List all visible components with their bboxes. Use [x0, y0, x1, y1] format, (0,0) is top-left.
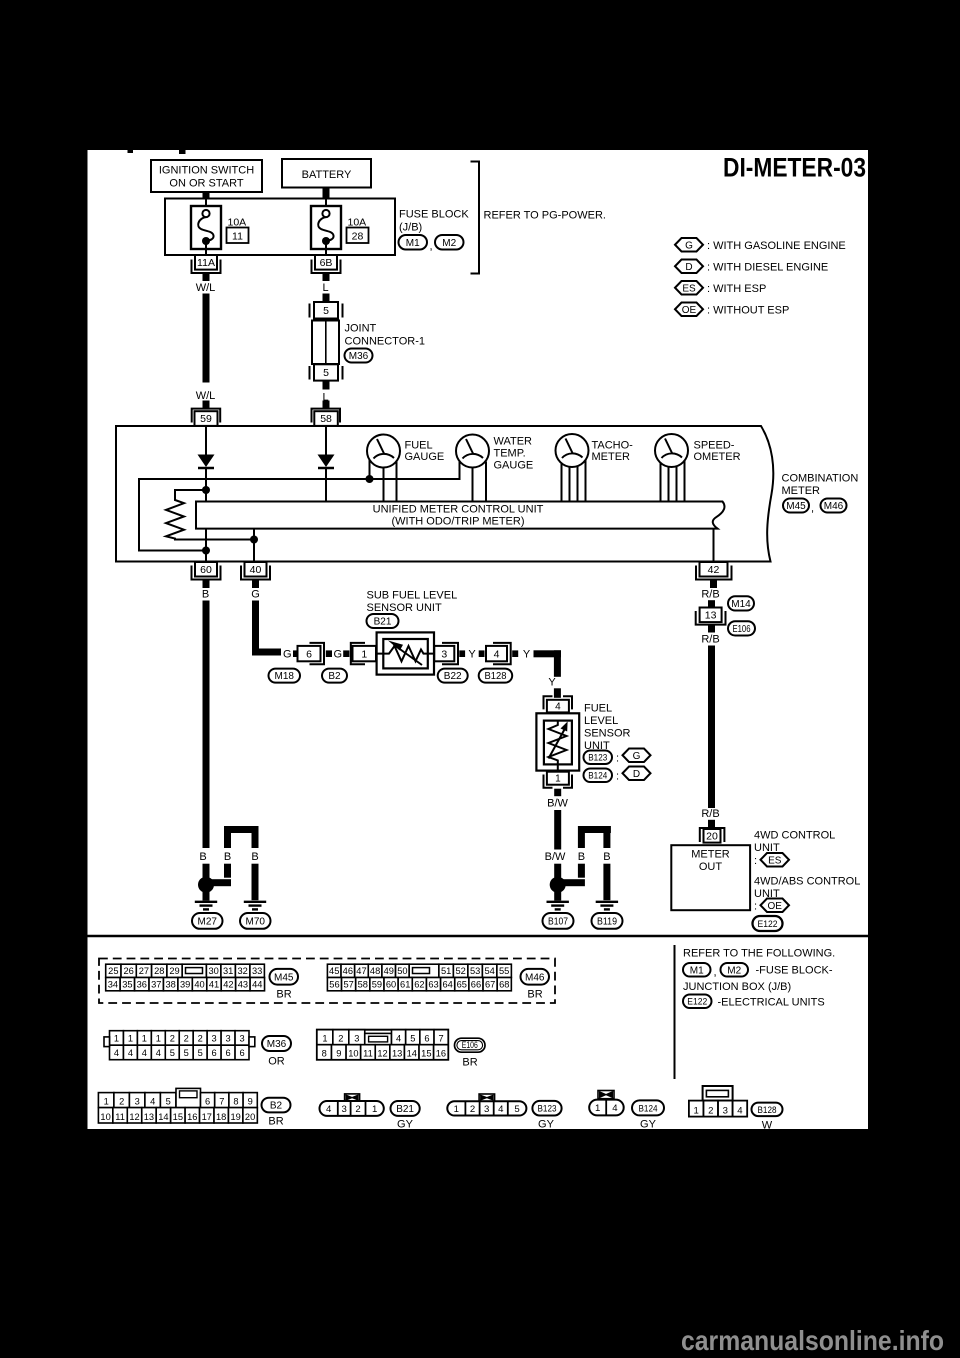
svg-text:57: 57 — [343, 979, 353, 989]
joint connector-1 body — [312, 321, 339, 365]
connector M36 oval — [345, 349, 373, 363]
svg-text:B128: B128 — [758, 1105, 777, 1116]
wire B right leg to M70 — [252, 833, 259, 848]
svg-text:-FUSE BLOCK-: -FUSE BLOCK- — [756, 965, 833, 977]
connector E122 oval — [753, 916, 783, 931]
svg-text:1: 1 — [142, 1033, 147, 1043]
legend OE : WITHOUT ESP — [675, 303, 703, 317]
wire G from pin 40 elbow — [252, 601, 259, 656]
svg-text:4: 4 — [326, 1104, 332, 1115]
svg-text:5: 5 — [184, 1048, 189, 1058]
svg-text:4WD CONTROL: 4WD CONTROL — [754, 829, 835, 841]
legend ES : WITH ESP — [675, 281, 703, 295]
svg-text:7: 7 — [439, 1034, 444, 1044]
svg-text:45: 45 — [329, 966, 339, 976]
connector E106 oval (view) — [455, 1038, 486, 1052]
svg-text:B128: B128 — [484, 671, 506, 682]
connector view M45 key slot — [186, 968, 203, 974]
svg-text:COMBINATION: COMBINATION — [782, 473, 859, 485]
svg-text:OE: OE — [768, 901, 783, 912]
connector view B2 pin grid — [98, 1088, 257, 1123]
diode D2 (from pin 58) — [325, 426, 327, 455]
wire B vertical from pin 60 — [203, 601, 210, 849]
svg-text:4: 4 — [396, 1034, 401, 1044]
connector 58 — [312, 409, 341, 423]
svg-text:TACHO-: TACHO- — [592, 439, 634, 451]
svg-text:12: 12 — [377, 1049, 387, 1059]
svg-text:5: 5 — [166, 1097, 171, 1107]
svg-text:11A: 11A — [197, 257, 215, 269]
wire stub below 13 — [708, 626, 715, 633]
svg-text:: WITHOUT ESP: : WITHOUT ESP — [707, 305, 789, 317]
svg-text:SUB FUEL LEVEL: SUB FUEL LEVEL — [367, 589, 458, 601]
svg-text:B/W: B/W — [545, 851, 566, 863]
svg-text:M1: M1 — [406, 238, 420, 249]
svg-text:1: 1 — [454, 1104, 459, 1115]
dashed group box M45/M46 — [99, 959, 555, 1004]
speedometer meter symbol — [655, 434, 688, 467]
svg-text:11: 11 — [363, 1049, 373, 1059]
svg-text:35: 35 — [122, 979, 132, 989]
svg-text:9: 9 — [248, 1097, 253, 1107]
svg-text:6: 6 — [306, 648, 312, 660]
svg-text:carmanualsonline.info: carmanualsonline.info — [681, 1325, 944, 1356]
svg-text:E122: E122 — [758, 919, 778, 930]
svg-text:49: 49 — [384, 966, 394, 976]
svg-text:4: 4 — [114, 1048, 119, 1058]
svg-text:M70: M70 — [246, 917, 266, 928]
svg-text:D: D — [633, 769, 640, 780]
wire ignition switch to fuse block — [203, 192, 210, 199]
svg-text:26: 26 — [123, 966, 133, 976]
svg-text:BATTERY: BATTERY — [302, 169, 352, 181]
svg-text:25: 25 — [108, 966, 118, 976]
svg-text:51: 51 — [441, 966, 451, 976]
svg-text:2: 2 — [708, 1105, 713, 1116]
svg-text:52: 52 — [455, 966, 465, 976]
connector view M46 pin grid — [327, 964, 341, 977]
svg-text:18: 18 — [216, 1112, 226, 1122]
svg-text:B107: B107 — [548, 917, 568, 928]
svg-text:68: 68 — [499, 979, 509, 989]
svg-text:M46: M46 — [824, 501, 844, 512]
legend ES hexagon (4WD) — [761, 853, 790, 867]
svg-text:30: 30 — [208, 966, 218, 976]
svg-text:3: 3 — [239, 1033, 244, 1043]
connector B123 oval (view) — [532, 1101, 561, 1116]
svg-text:60: 60 — [200, 564, 212, 576]
svg-text:1: 1 — [595, 1103, 600, 1114]
wire UMCU to pin 40 — [253, 529, 255, 562]
wire stub — [343, 650, 349, 657]
connector 42 — [696, 566, 732, 580]
svg-text:: WITH GASOLINE ENGINE: : WITH GASOLINE ENGINE — [707, 240, 846, 252]
svg-text:12: 12 — [129, 1112, 139, 1122]
meter out unit box — [671, 845, 750, 910]
svg-text:BR: BR — [462, 1056, 477, 1068]
ground symbol B107 — [547, 901, 569, 903]
bracket for fuse block refer note — [471, 162, 480, 274]
svg-text:47: 47 — [356, 966, 366, 976]
wire battery to fuse block — [323, 188, 330, 200]
water temp gauge meter symbol — [456, 435, 489, 468]
svg-text:46: 46 — [343, 966, 353, 976]
svg-text:,: , — [430, 241, 433, 253]
svg-text:58: 58 — [320, 413, 332, 425]
svg-text:4: 4 — [128, 1048, 133, 1058]
connector B124 oval : D — [584, 769, 613, 783]
svg-text:6: 6 — [239, 1048, 244, 1058]
connector B21 oval (view) — [391, 1101, 420, 1116]
svg-text:29: 29 — [169, 966, 179, 976]
connector view E106 pin grid — [317, 1030, 448, 1060]
svg-text:B: B — [199, 851, 206, 863]
svg-text:M36: M36 — [267, 1039, 287, 1050]
svg-text:2: 2 — [119, 1097, 124, 1107]
connector 59 — [192, 409, 221, 423]
svg-text:4: 4 — [156, 1048, 161, 1058]
connector view B21 — [345, 1094, 360, 1101]
svg-text:Y: Y — [468, 648, 476, 660]
connector M18 oval — [269, 669, 301, 683]
svg-text:R/B: R/B — [701, 633, 719, 645]
svg-text:4: 4 — [494, 648, 500, 660]
svg-text:BR: BR — [527, 988, 542, 1000]
wire stub — [479, 650, 485, 657]
ground junction node (M27) — [198, 877, 214, 893]
svg-text:IGNITION SWITCH: IGNITION SWITCH — [159, 165, 254, 177]
svg-text:37: 37 — [151, 979, 161, 989]
svg-text:15: 15 — [173, 1112, 183, 1122]
connector view B124 — [598, 1091, 614, 1099]
svg-text:3: 3 — [484, 1104, 489, 1115]
svg-text:B21: B21 — [374, 617, 392, 628]
svg-text:39: 39 — [180, 979, 190, 989]
svg-text:W: W — [762, 1120, 773, 1132]
svg-text:13: 13 — [144, 1112, 154, 1122]
svg-text:W/L: W/L — [196, 282, 216, 294]
connector B128 oval — [479, 669, 513, 683]
svg-text:ON OR START: ON OR START — [169, 178, 243, 190]
svg-text:53: 53 — [470, 966, 480, 976]
svg-text:B21: B21 — [396, 1104, 414, 1115]
svg-text:43: 43 — [238, 979, 248, 989]
connector M1 oval — [399, 235, 428, 250]
connector 60 — [192, 566, 221, 580]
joint connector-1 pin 5 (top) — [309, 304, 311, 318]
svg-text:36: 36 — [137, 979, 147, 989]
svg-text:32: 32 — [237, 966, 247, 976]
svg-text:1: 1 — [128, 1033, 133, 1043]
svg-text:5: 5 — [323, 367, 329, 379]
svg-text:METER: METER — [691, 848, 730, 860]
svg-text:BR: BR — [276, 988, 291, 1000]
svg-text:REFER TO THE FOLLOWING.: REFER TO THE FOLLOWING. — [683, 948, 835, 960]
svg-text:OUT: OUT — [699, 861, 723, 873]
svg-text:L: L — [322, 282, 328, 294]
svg-text:1: 1 — [361, 648, 367, 660]
svg-text:M2: M2 — [442, 238, 456, 249]
svg-text:4: 4 — [612, 1103, 618, 1114]
svg-text:20: 20 — [706, 830, 718, 842]
svg-text:UNIFIED METER CONTROL UNIT: UNIFIED METER CONTROL UNIT — [373, 503, 544, 515]
ground symbol M27 — [195, 901, 217, 903]
svg-text:B/W: B/W — [547, 797, 568, 809]
svg-text:4: 4 — [555, 702, 561, 713]
svg-text:59: 59 — [200, 413, 212, 425]
svg-text:5: 5 — [198, 1048, 203, 1058]
svg-text:B: B — [603, 851, 610, 863]
connector pin 4 (fuel level sensor) — [544, 696, 553, 709]
svg-text:M18: M18 — [275, 671, 295, 682]
svg-text:: WITH ESP: : WITH ESP — [707, 283, 766, 295]
svg-text:34: 34 — [108, 979, 118, 989]
svg-text:WATER: WATER — [494, 435, 533, 447]
svg-text:5: 5 — [410, 1034, 415, 1044]
svg-text:M45: M45 — [786, 501, 806, 512]
svg-text:-ELECTRICAL UNITS: -ELECTRICAL UNITS — [718, 996, 825, 1008]
svg-text:5: 5 — [170, 1048, 175, 1058]
fuel gauge meter symbol — [367, 435, 400, 468]
svg-text:B124: B124 — [639, 1103, 658, 1114]
separator line above connector views — [88, 935, 869, 937]
svg-text:3: 3 — [135, 1097, 140, 1107]
connector B2 oval — [322, 669, 347, 683]
svg-text:27: 27 — [139, 966, 149, 976]
svg-text:8: 8 — [233, 1097, 238, 1107]
svg-text:55: 55 — [499, 966, 509, 976]
svg-text:OR: OR — [268, 1055, 285, 1067]
variable resistor (fuel level sender) — [549, 721, 567, 765]
svg-text:ES: ES — [682, 283, 696, 294]
ground M70 oval — [240, 913, 271, 929]
svg-text:REFER TO PG-POWER.: REFER TO PG-POWER. — [484, 210, 606, 222]
wire UMCU to pin 42 — [713, 529, 715, 562]
svg-text:M46: M46 — [525, 972, 545, 983]
fuse F2 10A — [325, 199, 327, 212]
svg-text:4WD/ABS CONTROL: 4WD/ABS CONTROL — [754, 875, 860, 887]
svg-text:LEVEL: LEVEL — [584, 715, 618, 727]
connector pin 4 (B128) — [486, 646, 507, 661]
svg-text:14: 14 — [407, 1049, 417, 1059]
svg-text:M36: M36 — [349, 351, 369, 362]
ground symbol M70 — [244, 901, 266, 903]
svg-text:2: 2 — [184, 1033, 189, 1043]
tachometer meter symbol — [556, 434, 589, 467]
svg-text:5: 5 — [514, 1104, 519, 1115]
svg-text:(WITH ODO/TRIP METER): (WITH ODO/TRIP METER) — [391, 515, 524, 527]
svg-text:3: 3 — [342, 1104, 347, 1115]
connector 13 — [696, 611, 726, 625]
node junction dot bus on wire 59-60 — [202, 547, 210, 555]
fuse block (J/B) box — [165, 199, 395, 256]
svg-text:DI-METER-03: DI-METER-03 — [723, 153, 866, 183]
connector M2 oval (footer) — [721, 963, 749, 977]
svg-text:SPEED-: SPEED- — [694, 439, 735, 451]
connector B21 oval — [367, 614, 399, 628]
svg-text:8: 8 — [322, 1049, 327, 1059]
wire B/W vertical — [554, 810, 561, 850]
svg-text:7: 7 — [219, 1097, 224, 1107]
connector 11A — [192, 260, 221, 274]
svg-text:2: 2 — [170, 1033, 175, 1043]
svg-text:50: 50 — [397, 966, 407, 976]
svg-text:B: B — [224, 851, 231, 863]
svg-text:OE: OE — [682, 305, 697, 316]
svg-text:1: 1 — [104, 1097, 109, 1107]
svg-text:B: B — [578, 851, 585, 863]
fuse number box 11 — [227, 228, 249, 244]
svg-text:B: B — [251, 851, 258, 863]
svg-text:1: 1 — [114, 1033, 119, 1043]
svg-text:28: 28 — [352, 231, 364, 243]
node junction dot resistor bottom on wire to pin 40 — [250, 536, 258, 544]
svg-text:1: 1 — [555, 774, 561, 785]
svg-text:G: G — [251, 589, 260, 601]
svg-text:E106: E106 — [733, 624, 751, 635]
wire label R/B (above 13) — [708, 600, 715, 607]
svg-text:G: G — [334, 648, 343, 660]
wire stub — [459, 650, 465, 657]
ground junction node (B107) — [550, 877, 566, 893]
svg-text:2: 2 — [338, 1034, 343, 1044]
cropped heading descender marks — [128, 150, 134, 153]
connector M14 oval — [728, 596, 754, 610]
svg-text:48: 48 — [370, 966, 380, 976]
connector view M36 side tabs — [104, 1037, 110, 1047]
svg-text:R/B: R/B — [701, 808, 719, 820]
svg-text:6: 6 — [205, 1097, 210, 1107]
connector view M46 key slot — [413, 968, 430, 974]
svg-text:40: 40 — [250, 564, 262, 576]
svg-text:R/B: R/B — [701, 589, 719, 601]
svg-text:1: 1 — [694, 1105, 699, 1116]
svg-text:METER: METER — [592, 451, 631, 463]
connector B128 oval (view) — [752, 1103, 783, 1117]
svg-text:16: 16 — [436, 1049, 446, 1059]
svg-text:B22: B22 — [444, 671, 462, 682]
svg-text:GAUGE: GAUGE — [494, 459, 534, 471]
connector M45 oval (view) — [270, 969, 299, 985]
svg-text:54: 54 — [484, 966, 494, 976]
svg-text:JOINT: JOINT — [345, 323, 377, 335]
connector M2 oval — [435, 235, 464, 250]
wire W/L vertical — [203, 294, 210, 383]
svg-text:64: 64 — [443, 979, 453, 989]
svg-text:63: 63 — [428, 979, 438, 989]
connector 6B — [312, 260, 341, 274]
svg-text:METER: METER — [782, 485, 821, 497]
svg-text:: WITH DIESEL ENGINE: : WITH DIESEL ENGINE — [707, 262, 828, 274]
connector pin 1 (fuel level sensor) — [544, 775, 553, 788]
svg-text:13: 13 — [705, 609, 717, 621]
svg-text:1: 1 — [156, 1033, 161, 1043]
svg-text:56: 56 — [329, 979, 339, 989]
variable resistor (sub fuel sender) — [377, 646, 434, 661]
wire stub — [293, 650, 299, 657]
svg-text:E122: E122 — [687, 997, 707, 1008]
svg-text:3: 3 — [212, 1033, 217, 1043]
svg-text:M14: M14 — [731, 599, 751, 610]
connector view M36 pin grid — [110, 1031, 124, 1046]
svg-text:M27: M27 — [198, 917, 218, 928]
svg-text:G: G — [685, 240, 693, 251]
svg-text:G: G — [633, 751, 641, 762]
fuel level sensor unit box — [557, 712, 559, 721]
joint connector-1 pin 5 (bottom) — [309, 366, 311, 380]
svg-text:GY: GY — [640, 1119, 657, 1131]
svg-text:B123: B123 — [538, 1104, 557, 1115]
svg-text:3: 3 — [723, 1105, 728, 1116]
svg-text:15: 15 — [421, 1049, 431, 1059]
svg-text:G: G — [283, 648, 292, 660]
svg-text:GAUGE: GAUGE — [405, 451, 445, 463]
svg-text:D: D — [685, 262, 692, 273]
svg-text:SENSOR UNIT: SENSOR UNIT — [367, 602, 442, 614]
svg-text:CONNECTOR-1: CONNECTOR-1 — [345, 336, 425, 348]
svg-text:38: 38 — [166, 979, 176, 989]
svg-text:3: 3 — [441, 648, 447, 660]
svg-text:JUNCTION BOX (J/B): JUNCTION BOX (J/B) — [683, 981, 791, 993]
wire B jumper to B119 ground — [578, 826, 611, 833]
block IGNITION SWITCH ON OR START — [151, 160, 262, 192]
svg-text:3: 3 — [354, 1034, 359, 1044]
sub fuel level sensor unit box — [377, 632, 434, 674]
svg-text:E106: E106 — [462, 1040, 478, 1050]
svg-text:1: 1 — [372, 1104, 377, 1115]
wire B jumper to M70 ground — [224, 826, 259, 833]
wire R/B vertical — [708, 646, 715, 809]
legend G : WITH GASOLINE ENGINE — [675, 238, 703, 252]
svg-text:20: 20 — [245, 1112, 255, 1122]
connector view B128 — [703, 1086, 733, 1101]
connector E106 oval (mid) — [728, 621, 755, 635]
connector B124 oval (view) — [632, 1100, 664, 1115]
node junction dot fuel gauge pin on bus — [366, 475, 374, 483]
connector M36 oval (view) — [262, 1036, 291, 1051]
svg-text:16: 16 — [187, 1112, 197, 1122]
fuse number box 28 — [347, 228, 369, 244]
svg-text:GY: GY — [538, 1119, 555, 1131]
svg-text:,: , — [811, 503, 814, 515]
svg-text:41: 41 — [209, 979, 219, 989]
svg-text:19: 19 — [230, 1112, 240, 1122]
svg-text:,: , — [714, 967, 717, 979]
connector M1 oval (footer) — [683, 963, 711, 977]
svg-text:60: 60 — [386, 979, 396, 989]
legend D : WITH DIESEL ENGINE — [675, 260, 703, 274]
combination meter outline — [116, 426, 773, 562]
svg-text:42: 42 — [223, 979, 233, 989]
wire stub — [512, 650, 518, 657]
svg-text:4: 4 — [737, 1105, 743, 1116]
svg-text:FUSE BLOCK: FUSE BLOCK — [399, 209, 469, 221]
svg-text:M2: M2 — [727, 965, 741, 976]
svg-text:44: 44 — [252, 979, 262, 989]
svg-text:2: 2 — [470, 1104, 475, 1115]
svg-text:33: 33 — [252, 966, 262, 976]
svg-text:17: 17 — [202, 1112, 212, 1122]
svg-text:4: 4 — [142, 1048, 147, 1058]
fuse F1 10A — [205, 199, 207, 212]
legend OE hexagon (4WD/ABS) — [761, 899, 790, 913]
svg-text:6: 6 — [424, 1034, 429, 1044]
svg-text:M45: M45 — [274, 972, 294, 983]
svg-text:B2: B2 — [328, 671, 341, 682]
svg-text:9: 9 — [336, 1049, 341, 1059]
svg-text:B2: B2 — [270, 1101, 283, 1112]
unified meter control unit box — [196, 502, 724, 529]
